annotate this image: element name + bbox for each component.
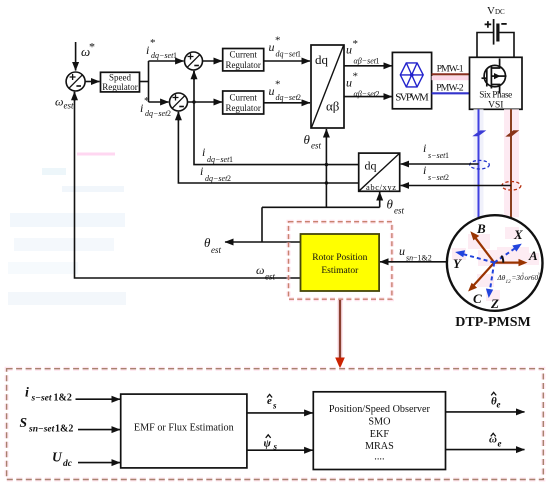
svg-text:Current: Current [229, 50, 257, 60]
svg-text:Current: Current [229, 93, 257, 103]
svg-text:dq: dq [315, 52, 329, 67]
wire theta_est to abc/xyz box [379, 192, 381, 207]
dashed box bottom observer section [7, 369, 544, 480]
svg-text:i: i [140, 101, 143, 115]
wire theta_e output [446, 411, 525, 413]
svg-text:*: * [353, 38, 359, 50]
block Position/Speed Observer [313, 392, 445, 470]
wire theta_est output left [225, 241, 300, 243]
svg-text:2: 2 [297, 93, 301, 102]
svg-text:PMW-1: PMW-1 [437, 64, 464, 75]
svg-text:B: B [476, 221, 486, 236]
wire omega_e output [446, 449, 525, 451]
current sensor ellipse set1 (blue dashed) [470, 160, 490, 169]
wire CR2 to dq box [264, 102, 310, 104]
MOSFET symbol [482, 59, 507, 94]
svg-text:θ: θ [204, 235, 211, 250]
block SVPWM [392, 52, 431, 108]
svg-text:dq−set: dq−set [276, 93, 299, 102]
svg-text:*: * [144, 95, 150, 107]
svg-text:Δθ: Δθ [497, 274, 506, 282]
svg-text:i: i [202, 145, 205, 159]
svg-text:°: ° [538, 274, 540, 279]
svg-text:dq: dq [365, 159, 377, 173]
svg-text:est: est [394, 206, 404, 216]
svg-text:2: 2 [445, 173, 449, 182]
svg-text:u: u [399, 244, 405, 258]
wire CR1 to dq box [264, 60, 310, 62]
svg-text:Regulator: Regulator [225, 60, 261, 70]
svg-text:θ: θ [304, 132, 311, 147]
wire to junction J1 [149, 60, 184, 62]
svg-text:dq−set: dq−set [276, 50, 299, 59]
svg-text:est: est [211, 245, 221, 255]
svg-text:ω: ω [489, 434, 497, 446]
wire S1 to speed regulator [85, 81, 99, 83]
svg-text:s−set: s−set [31, 394, 52, 404]
svg-text:Regulator: Regulator [102, 82, 138, 92]
svg-text:s: s [272, 401, 277, 411]
svg-text:i: i [146, 43, 149, 57]
svg-text:1&2: 1&2 [55, 424, 73, 435]
svg-text:DC: DC [495, 8, 505, 16]
svg-text:ψ: ψ [264, 438, 272, 450]
svg-text:Rotor Position: Rotor Position [312, 253, 367, 263]
svg-text:EKF: EKF [370, 429, 390, 440]
block EMF or Flux Estimation [121, 394, 247, 468]
svg-text:1: 1 [445, 151, 449, 160]
svg-text:i: i [200, 164, 203, 178]
svg-text:U: U [52, 450, 63, 465]
svg-text:est: est [311, 141, 321, 151]
svg-text:abc/xyz: abc/xyz [366, 182, 396, 192]
svg-text:i: i [423, 163, 426, 177]
wire J2 to current regulator 2 [188, 101, 223, 103]
junction dots at wire crossings [192, 100, 195, 103]
svg-text:V: V [487, 5, 495, 17]
svg-text:*: * [353, 71, 359, 83]
wire PMW-2 [432, 92, 470, 94]
wire battery to VSI [477, 33, 493, 58]
wire J1 to current regulator 1 [203, 60, 223, 62]
svg-text:u: u [346, 76, 352, 90]
wire psi_s to observer [247, 449, 313, 451]
svg-text:2: 2 [227, 174, 231, 183]
wire to junction J2 [149, 101, 169, 103]
svg-text:Estimator: Estimator [321, 266, 359, 276]
svg-text:*: * [275, 35, 281, 47]
red arrow estimator to bottom box [337, 300, 343, 359]
svg-text:e: e [497, 400, 501, 410]
wire i_s-set2 to abc/xyz box [401, 185, 511, 187]
phase A arrow [494, 262, 522, 264]
slash bundle mark brown [505, 130, 519, 136]
wire i_dq-set1 feedback [194, 71, 359, 165]
svg-text:αβ−set: αβ−set [354, 57, 377, 66]
block Six Phase VSI [470, 57, 523, 110]
phase Z arrow (dashed blue) [490, 263, 495, 293]
wire u_sn-1&2 motor to estimator [380, 261, 447, 263]
svg-text:A: A [528, 248, 538, 263]
svg-text:Speed: Speed [109, 73, 131, 83]
svg-text:1&2: 1&2 [54, 393, 72, 404]
svg-text:SMO: SMO [368, 416, 390, 427]
svg-text:ω: ω [55, 95, 63, 109]
block Rotor Position Estimator (yellow) [301, 234, 380, 291]
wire VSI to motor set1 (blue) [478, 109, 480, 218]
svg-text:C: C [473, 291, 482, 306]
wire speed reg output split [140, 81, 149, 83]
wire theta_est to alphabeta box [325, 129, 327, 207]
svg-text:s−set: s−set [428, 151, 446, 160]
svg-text:PMW-2: PMW-2 [436, 83, 464, 94]
svg-text:u: u [269, 84, 275, 98]
faint erased-text artifacts left side [8, 153, 126, 306]
svg-text:EMF or Flux Estimation: EMF or Flux Estimation [134, 423, 234, 434]
svg-text:i: i [423, 141, 426, 155]
svg-text:ω: ω [256, 263, 264, 277]
svg-text:dq−set: dq−set [207, 155, 230, 164]
svg-text:αβ−set: αβ−set [354, 90, 377, 99]
svg-text:e: e [498, 439, 502, 449]
svg-text:u: u [269, 40, 275, 54]
svg-text:dq−set: dq−set [145, 109, 168, 118]
svg-text:est: est [265, 272, 275, 282]
svg-text:i: i [25, 386, 29, 401]
svg-text:Six Phase: Six Phase [479, 91, 512, 101]
svg-text:est: est [64, 101, 74, 111]
block Current Regulator 2 [223, 91, 264, 114]
wire VSI to motor set2 (brown) [510, 109, 512, 218]
svg-text:X: X [513, 227, 523, 242]
svg-text:1: 1 [297, 50, 301, 59]
svg-text:....: .... [374, 452, 384, 463]
slash bundle mark blue [472, 130, 486, 136]
wire split vertical [148, 61, 150, 102]
wire theta_est branch vertical [261, 207, 263, 242]
svg-text:sn−set: sn−set [28, 425, 55, 435]
svg-text:or60: or60 [525, 274, 539, 282]
svg-text:Z: Z [490, 296, 499, 311]
wire U_dc input [78, 462, 120, 464]
svg-text:s−set: s−set [428, 173, 446, 182]
summing junction S1 [66, 72, 85, 91]
pink artifact band along brown phase line [504, 109, 519, 217]
wire theta_est horizontal bus [262, 206, 380, 208]
svg-text:Regulator: Regulator [225, 103, 261, 113]
svg-text:1: 1 [173, 51, 177, 60]
phase B arrow [474, 236, 495, 263]
dashed box around rotor position estimator [289, 222, 392, 300]
svg-text:−1&2: −1&2 [413, 254, 432, 263]
svg-text:2: 2 [167, 109, 171, 118]
summing junction J1 [185, 52, 203, 70]
svg-text:DTP-PMSM: DTP-PMSM [455, 315, 530, 330]
current sensor ellipse set2 (red dashed) [502, 182, 521, 191]
svg-text:dq−set: dq−set [151, 51, 174, 60]
phase C arrow [472, 263, 495, 288]
svg-text:Position/Speed Observer: Position/Speed Observer [329, 404, 431, 415]
summing junction J2 [170, 93, 188, 111]
svg-text:1: 1 [376, 57, 380, 66]
wire i_dq-set2 feedback [178, 112, 358, 183]
svg-text:1: 1 [229, 155, 233, 164]
wire dq box to svpwm set1 [344, 65, 392, 67]
wire dq box to svpwm set2 [344, 96, 392, 98]
block Speed Regulator [101, 72, 140, 92]
svg-text:S: S [20, 415, 28, 430]
battery [485, 19, 507, 45]
block Current Regulator 1 [223, 49, 264, 71]
svg-text:VSI: VSI [488, 101, 503, 111]
block dq/alphabeta transform [311, 45, 344, 128]
wire s_sn-set1&2 input [78, 429, 120, 431]
wire omega* input [75, 42, 77, 71]
svg-text:u: u [346, 43, 352, 57]
svg-text:*: * [89, 40, 95, 54]
wire PMW-1 [432, 73, 470, 75]
phase X arrow (dashed blue) [494, 247, 517, 263]
wire i_s-set1&2 input [76, 398, 121, 400]
svg-text:*: * [150, 37, 156, 49]
svg-text:θ: θ [387, 197, 394, 212]
svg-text:Y: Y [453, 256, 462, 271]
phase Y arrow (dashed blue) [460, 253, 494, 262]
svg-text:dq−set: dq−set [205, 174, 228, 183]
wire omega_est from estimator to S1 [75, 92, 301, 278]
wire e_s to observer [247, 412, 313, 414]
svg-text:12: 12 [506, 279, 512, 285]
angle arc between A and X [501, 256, 503, 263]
svg-text:dc: dc [63, 459, 73, 469]
svg-text:2: 2 [376, 90, 380, 99]
pink artifact band under PMW-1 [432, 76, 470, 80]
wire i_s-set1 to abc/xyz box [401, 163, 479, 165]
block dq/abcxyz transform [359, 153, 400, 192]
svg-text:*: * [275, 79, 281, 91]
motor DTP-PMSM [447, 215, 543, 311]
svg-text:αβ: αβ [326, 99, 340, 114]
svg-text:SVPWM: SVPWM [395, 92, 429, 104]
